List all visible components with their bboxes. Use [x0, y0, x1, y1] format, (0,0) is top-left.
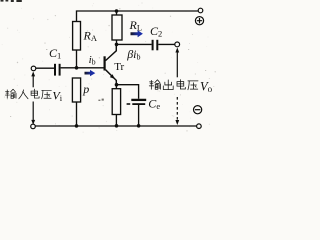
annotation output voltage dashed arrow down — [175, 97, 179, 125]
resistor RL — [112, 11, 122, 44]
capacitor Ce — [127, 100, 147, 126]
node p bottom junction — [75, 124, 79, 128]
wire RA bottom to base node — [76, 50, 78, 68]
svg-text:Tr: Tr — [114, 61, 124, 73]
power symbol minus — [194, 106, 202, 114]
glyph 输 — [5, 89, 16, 98]
node collector junction — [115, 43, 119, 47]
faint print specks — [10, 49, 206, 117]
power symbol plus — [195, 17, 203, 25]
glyph 压 — [188, 81, 198, 90]
node base junction — [75, 66, 79, 70]
terminal input - — [31, 124, 36, 129]
wire C2 to output terminal — [158, 43, 175, 45]
wire emitter to Ce branch — [117, 85, 139, 99]
wire collector to C2 — [117, 43, 152, 45]
terminal supply + — [198, 8, 203, 13]
label input voltage Vi (drawn glyphs 输入电压) — [5, 89, 51, 99]
page-top cropped print remnants — [1, 0, 22, 2]
node Ce bottom junction — [137, 124, 141, 128]
resistor p (r_be) — [72, 78, 80, 126]
annotation output voltage arrow up — [175, 48, 179, 78]
wire C1 to base — [61, 67, 104, 69]
wire top supply rail — [77, 11, 199, 22]
glyph 出 — [163, 80, 173, 90]
scan speckle texture — [2, 2, 216, 132]
resistor RA — [73, 22, 81, 51]
current arrow ib (blue) — [85, 70, 96, 76]
glyph 压 — [42, 90, 52, 99]
glyph 电 — [177, 80, 185, 89]
terminal output — [175, 42, 180, 47]
svg-text:p: p — [82, 82, 89, 96]
node junction top rail / RL — [115, 9, 119, 13]
glyph 输 — [149, 80, 160, 89]
node Re bottom junction — [115, 124, 119, 128]
capacitor C2 — [153, 40, 158, 51]
wire bottom rail — [35, 125, 196, 127]
annotation input voltage arrow down — [31, 102, 35, 125]
resistor Re (emitter) — [112, 85, 120, 126]
capacitor C1 — [55, 64, 60, 76]
wire input to C1 — [36, 67, 54, 69]
glyph 入 — [19, 90, 28, 99]
transistor Tr — [104, 44, 117, 84]
terminal supply - — [197, 124, 202, 129]
glyph 电 — [31, 89, 39, 98]
current arrow at RL (blue) — [131, 30, 143, 37]
label output voltage Vo (drawn glyphs 输出电压) — [149, 80, 198, 90]
annotation input voltage arrow up — [31, 71, 35, 87]
node emitter junction — [115, 83, 119, 87]
terminal input + — [31, 66, 36, 71]
